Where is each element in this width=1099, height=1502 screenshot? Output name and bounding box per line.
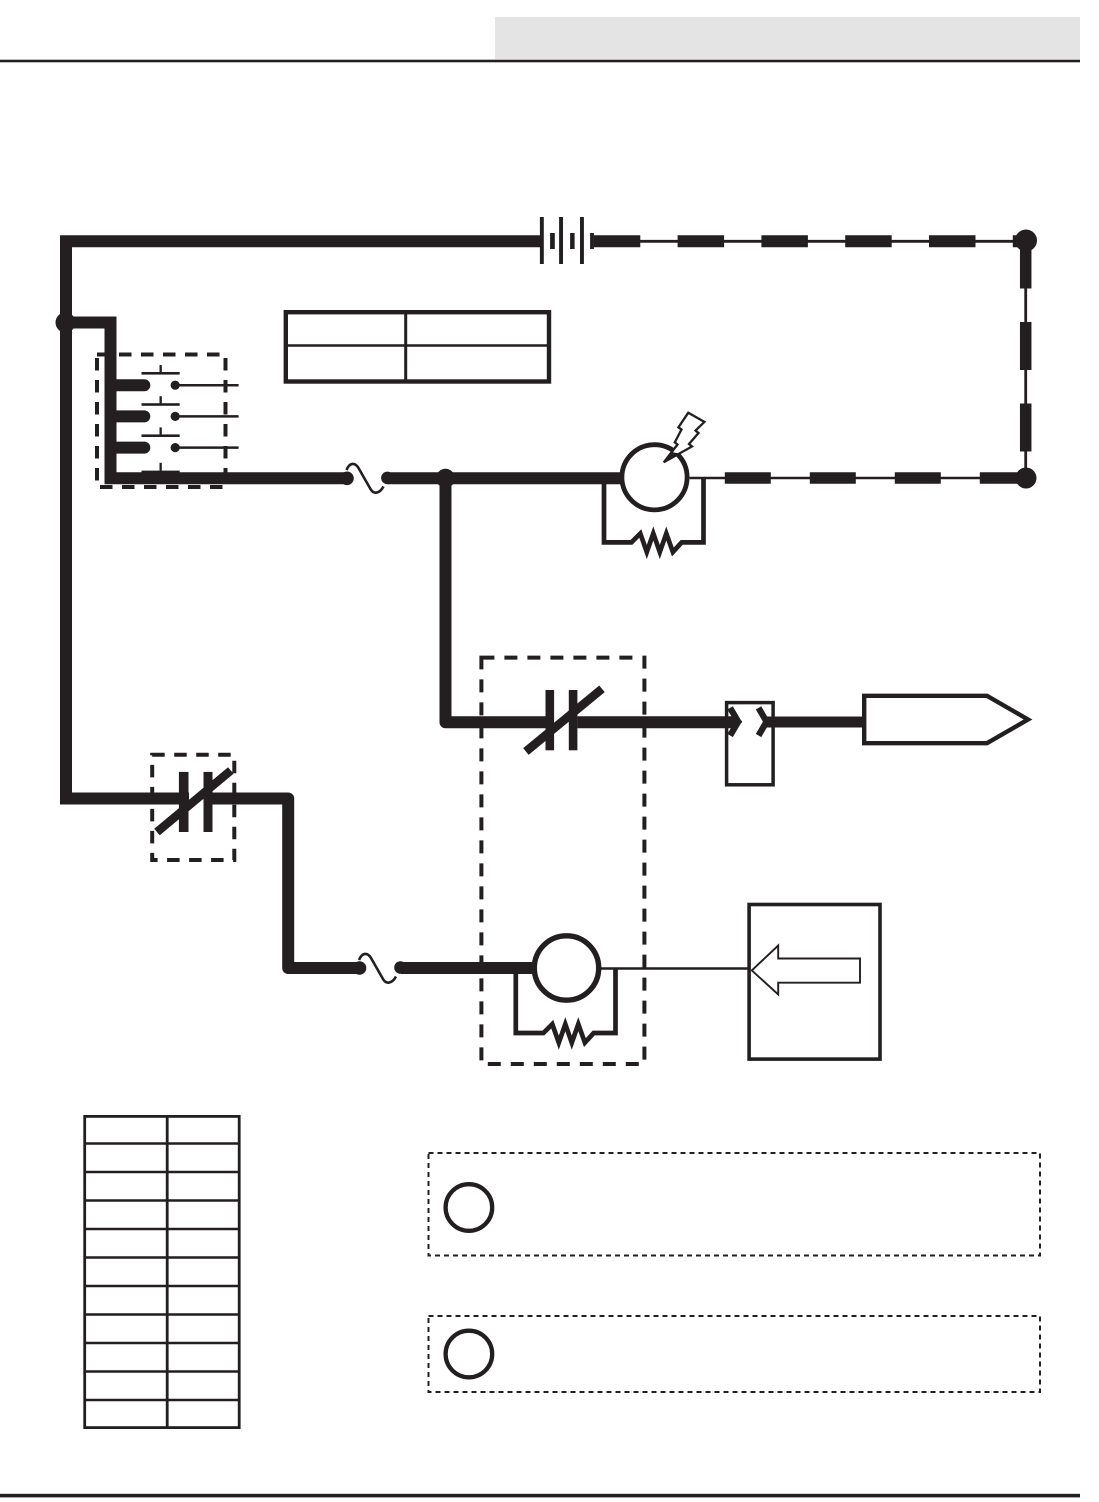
wire: dashed harness to igniter (thin with dashes) [690, 477, 1026, 480]
node: harness top right [1015, 230, 1037, 252]
wire break squiggle (stop switch row) [340, 464, 394, 493]
wire: solenoid to control box (thin) [599, 967, 749, 970]
node: harness bottom right [1016, 468, 1037, 489]
solenoid circle [534, 936, 598, 1000]
pointer label (pentagon) [864, 696, 1028, 743]
switch contact 2 [112, 396, 239, 421]
connector J1 male arrow [732, 711, 742, 733]
wire: capacitor to connector [577, 716, 733, 728]
capacitor C2 enclosure (dashed) [152, 755, 234, 860]
wire break squiggle (solenoid row) [353, 954, 407, 983]
solenoid shunt resistor R2 [516, 969, 616, 1043]
battery B1 [540, 217, 584, 264]
igniter shunt resistor R1 [604, 478, 704, 552]
CDI unit enclosure (tall dashed) [481, 658, 644, 1064]
switch contact 1 [112, 365, 239, 390]
engine stop switch enclosure (dashed) [97, 355, 226, 488]
note box 2 (dashed) [429, 1316, 1041, 1392]
connector J1 box [727, 703, 774, 785]
switch contact 4 (closed position) [142, 463, 180, 474]
parts table [84, 1116, 240, 1428]
footer rule [0, 1494, 1080, 1498]
node: left bus junction [56, 313, 76, 333]
wire: break to solenoid [401, 962, 540, 974]
wire: break to igniter [388, 472, 625, 484]
wire: junction to stop switch bus and output to break [66, 323, 347, 479]
wire: dashed harness right side [1024, 241, 1027, 479]
legend table (2x2) [286, 312, 549, 382]
node: T junction to CDI [436, 469, 455, 488]
wire: battery positive to left bus and lower capacitor [66, 241, 543, 798]
wire: dashed harness battery negative (top) [590, 233, 1026, 249]
header gray bar [495, 17, 1080, 59]
igniter circle [622, 445, 687, 510]
header rule [0, 60, 1080, 63]
control box [749, 905, 880, 1060]
control box arrow (outline, pointing left) [752, 946, 860, 995]
note marker circle 1 [446, 1184, 493, 1231]
wire: connector to pointer label [767, 717, 864, 728]
note box 1 (dashed) [429, 1153, 1041, 1256]
connector J1 female chevron [760, 711, 766, 733]
wire: T junction down to capacitor row [446, 478, 547, 722]
note marker circle 2 [446, 1331, 493, 1378]
capacitor C2 (crossed) [157, 771, 231, 833]
wire: left bus lower run to solenoid (after capacitor C2) [204, 799, 361, 969]
switch contact 3 [112, 427, 239, 452]
igniter lightning bolt [664, 413, 705, 463]
capacitor C1 (crossed) [526, 689, 602, 752]
